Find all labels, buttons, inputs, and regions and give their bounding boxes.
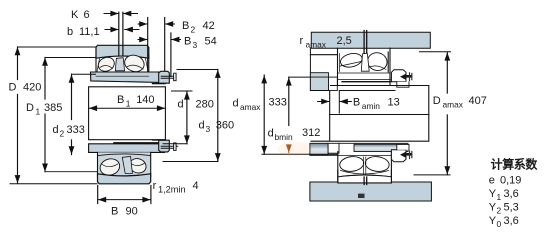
svg-text:2: 2 (60, 129, 65, 139)
roller lower right (128, 156, 149, 175)
svg-text:amin: amin (362, 101, 380, 111)
svg-text:bmin: bmin (275, 132, 293, 142)
svg-text:3: 3 (206, 124, 211, 134)
lock nut right view lower (391, 144, 412, 161)
svg-text:3: 3 (193, 40, 198, 50)
dimension d2 333 (53, 74, 96, 154)
dimension K 6 (71, 9, 138, 21)
svg-text:1: 1 (36, 107, 41, 117)
svg-text:333: 333 (269, 97, 287, 109)
inner ring and adapter sleeve upper (sectioned) (91, 72, 165, 83)
cage guide lower (122, 156, 132, 173)
svg-text:385: 385 (44, 102, 62, 114)
svg-text:d: d (233, 98, 239, 110)
svg-text:计算系数: 计算系数 (491, 157, 539, 172)
cage / guide ring (upper) (115, 58, 124, 71)
shaft box right view (311, 86, 429, 142)
svg-text:407: 407 (469, 95, 487, 107)
svg-text:90: 90 (126, 206, 138, 218)
svg-text:e: e (489, 175, 495, 187)
bearing faces upper (96, 56, 149, 73)
bearing upper right view (unsectioned) (338, 48, 411, 85)
dimension d 280 (163, 91, 214, 144)
svg-text:420: 420 (23, 82, 41, 94)
svg-text:0,19: 0,19 (500, 175, 521, 187)
factors table (489, 157, 539, 230)
svg-text:6: 6 (84, 9, 90, 21)
svg-text:1,2min: 1,2min (158, 185, 186, 195)
keyway slot shadow line lower (114, 142, 166, 144)
svg-text:0: 0 (497, 219, 502, 229)
svg-text:d: d (53, 124, 59, 136)
housing shoulder upper left (310, 73, 337, 91)
dimension b 11,1 (67, 26, 139, 38)
svg-text:5,3: 5,3 (504, 202, 519, 214)
dimension D1 385 (26, 58, 97, 172)
bearing lower right view (338, 152, 392, 183)
svg-text:d: d (178, 99, 184, 111)
svg-text:K: K (71, 9, 79, 21)
svg-text:B: B (182, 20, 189, 32)
svg-text:2: 2 (191, 25, 196, 35)
dimension dbmin 312 (268, 77, 321, 153)
svg-text:11,1: 11,1 (79, 26, 100, 38)
dimension d3 360 (163, 70, 234, 162)
lock nut right view upper (391, 70, 412, 87)
housing lower band (310, 170, 432, 201)
svg-text:B: B (117, 94, 124, 106)
shaft box B1 (89, 87, 166, 140)
sleeve band lower right view (shaded) (339, 143, 408, 151)
dimension Bamin 13 (318, 97, 400, 112)
roller zone lower (sectioned cage area) (98, 152, 151, 177)
outer ring upper (sectioned) (96, 45, 149, 58)
adapter sleeve lower (sectioned) (89, 143, 167, 153)
dimension B 90 (98, 186, 151, 218)
roller lower left (98, 156, 122, 177)
dimension B1 140 (89, 94, 166, 109)
dimension r amax 2,5 (300, 35, 352, 50)
svg-text:312: 312 (302, 127, 320, 139)
svg-text:amax: amax (240, 102, 261, 112)
svg-text:1: 1 (126, 99, 131, 109)
svg-text:4: 4 (193, 180, 199, 192)
dimension damax 333 (233, 75, 338, 154)
svg-text:140: 140 (136, 94, 154, 106)
svg-text:B: B (184, 36, 191, 48)
svg-text:2,5: 2,5 (337, 35, 352, 47)
svg-text:amax: amax (443, 100, 464, 110)
roller row left (upper) (96, 55, 116, 74)
oil slit lines right view (364, 31, 367, 56)
dimension Damax 407 (414, 52, 487, 175)
dimension B2 42 (138, 18, 215, 72)
lock nut upper (153, 71, 177, 83)
svg-text:2: 2 (497, 206, 502, 216)
svg-text:333: 333 (67, 124, 85, 136)
svg-text:3,6: 3,6 (504, 215, 519, 227)
svg-text:D: D (433, 95, 441, 107)
svg-text:D: D (9, 82, 17, 94)
svg-text:13: 13 (388, 97, 400, 109)
svg-text:280: 280 (196, 99, 214, 111)
outer ring lower (sectioned) (98, 174, 151, 184)
svg-text:D: D (26, 102, 34, 114)
housing upper band (310, 32, 430, 90)
dimension r 1,2min 4 (153, 180, 199, 195)
lock nut lower (153, 140, 178, 152)
svg-text:d: d (199, 120, 205, 132)
svg-text:42: 42 (203, 20, 215, 32)
dimension B3 54 (138, 33, 217, 77)
svg-text:1: 1 (497, 192, 502, 202)
oil hole / slit lines upper left view (119, 12, 123, 55)
svg-text:b: b (67, 26, 73, 38)
svg-text:B: B (111, 206, 118, 218)
svg-text:amax: amax (306, 40, 327, 50)
svg-text:54: 54 (205, 36, 217, 48)
roller row right (upper) (122, 53, 148, 75)
svg-text:3,6: 3,6 (504, 188, 519, 200)
svg-text:360: 360 (216, 120, 234, 132)
svg-text:r: r (153, 180, 157, 192)
svg-text:r: r (300, 35, 304, 47)
watermark tint (277, 142, 313, 156)
dimension D 420 (9, 47, 98, 184)
svg-text:d: d (268, 128, 274, 140)
svg-text:B: B (353, 97, 360, 109)
shoulder lower left with step (310, 143, 339, 155)
